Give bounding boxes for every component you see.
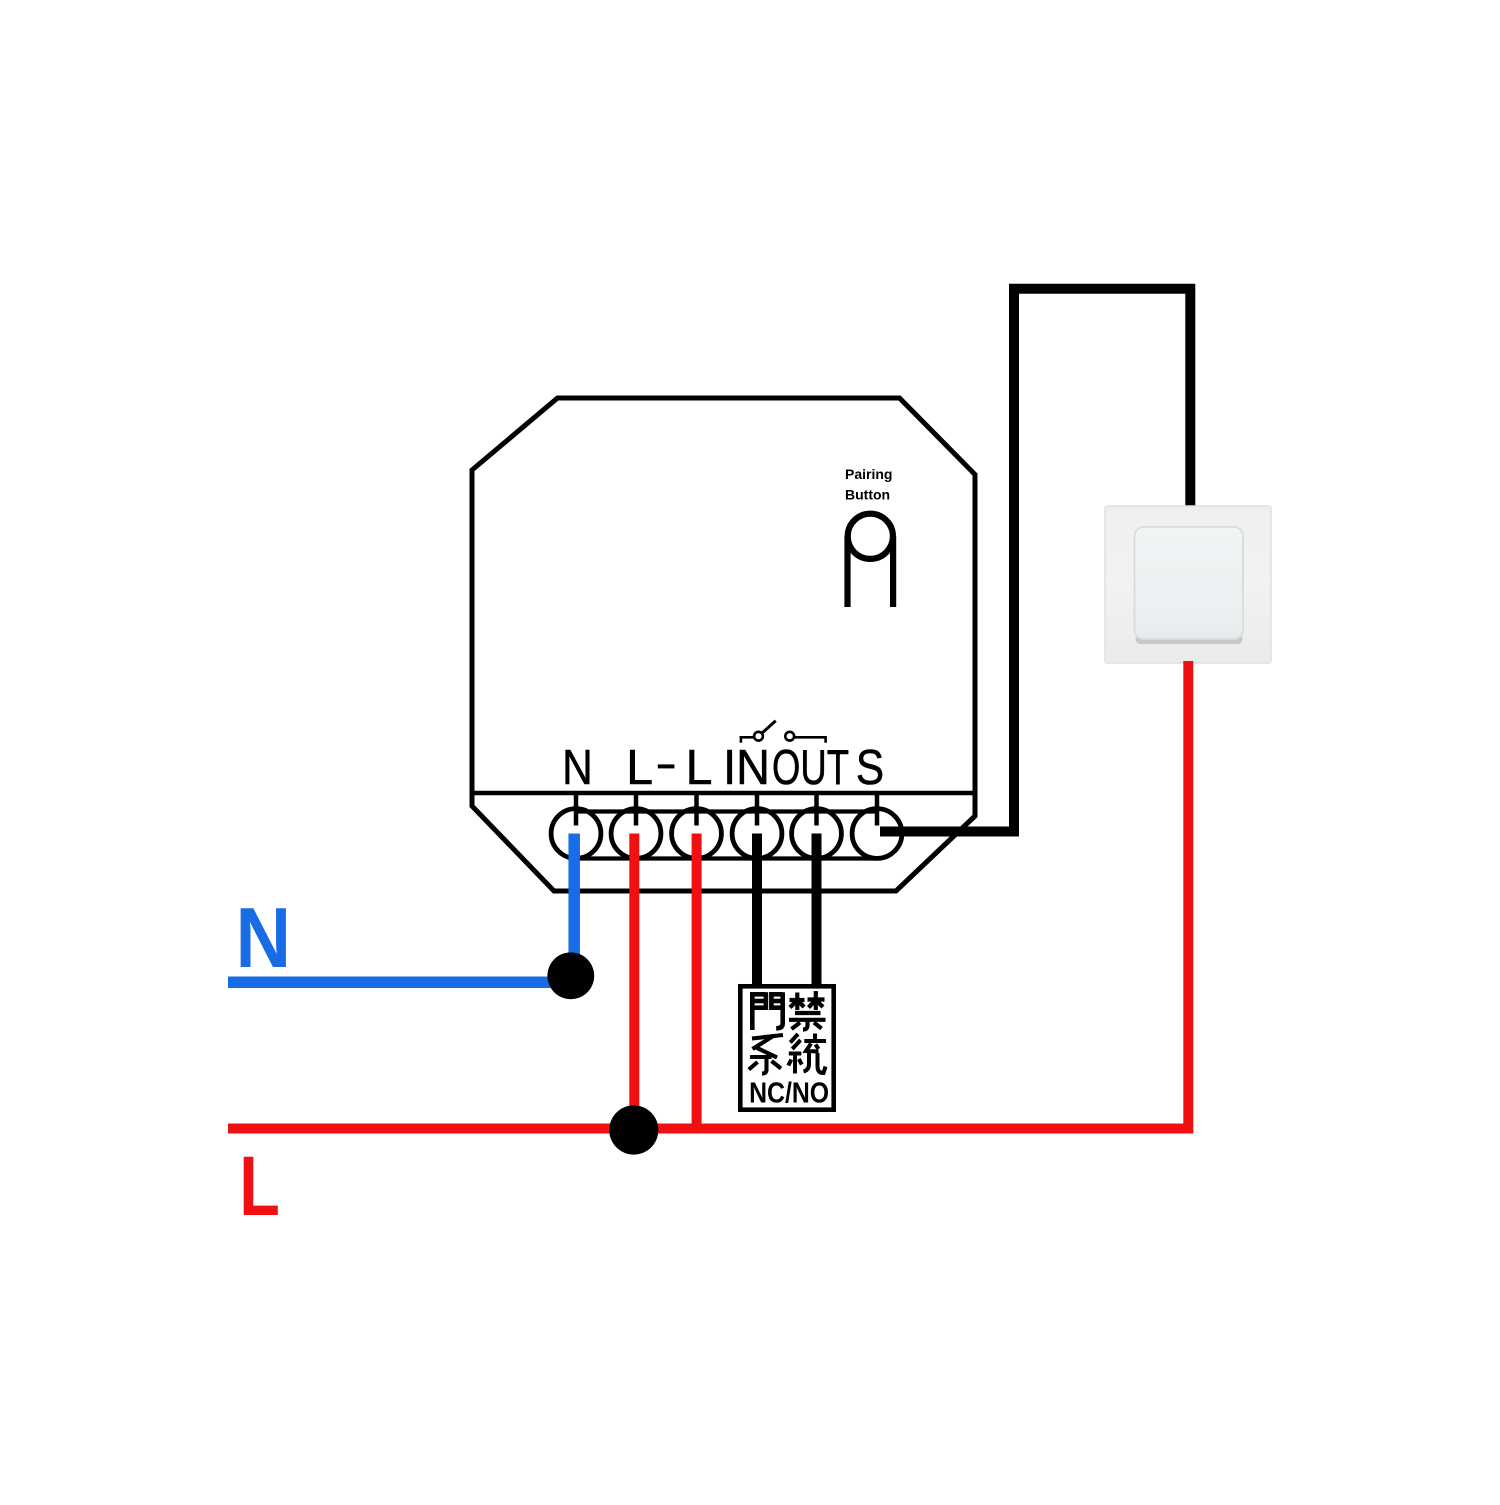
label dash between L terminals — [658, 764, 675, 768]
terminal L1 screw slot — [634, 793, 639, 826]
hand-drawn CJK glyph: 禁 (forbid) — [789, 991, 826, 1030]
terminal strip top rail — [576, 809, 877, 813]
terminal strip bottom rail — [576, 856, 877, 860]
hand-drawn CJK glyph: 系 (system/thread) — [749, 1035, 783, 1074]
wall switch rocker button — [1136, 634, 1243, 644]
terminal IN screw slot — [755, 793, 760, 826]
svg-text:Button: Button — [845, 486, 890, 502]
terminal N screw slot — [574, 793, 579, 826]
node: L junction dot — [609, 1105, 658, 1154]
terminal N (screw circle) — [551, 809, 601, 859]
wire S terminal to wall switch (black) — [880, 289, 1190, 832]
wire terminal IN to access-control box (black) — [752, 834, 762, 989]
wall switch SW1 (plate) — [1105, 506, 1271, 663]
terminal OUT screw slot — [814, 793, 819, 826]
terminal L2 screw slot — [694, 793, 699, 826]
relay module U1 body (octagon outline) — [472, 398, 975, 891]
svg-text:L: L — [686, 740, 713, 795]
relay contact symbol (normally-open switch) — [741, 721, 826, 743]
terminal S (screw circle) — [852, 809, 902, 859]
svg-text:NC/NO: NC/NO — [749, 1078, 829, 1110]
terminal OUT (screw circle) — [792, 809, 842, 859]
wire terminal OUT to access-control box (black) — [812, 834, 822, 989]
terminal S screw slot — [875, 793, 880, 826]
svg-text:N: N — [562, 740, 593, 795]
terminal L1 (screw circle) — [611, 809, 661, 859]
wire N to terminal N (blue vertical) — [568, 834, 580, 979]
svg-text:Pairing: Pairing — [845, 466, 892, 482]
access control box (door access system, NC/NO) — [740, 986, 833, 1109]
wire N horizontal (blue) — [228, 977, 585, 989]
svg-text:N: N — [236, 891, 292, 986]
wire terminal L2 down to L line (red vertical) — [692, 834, 702, 1134]
svg-text:L: L — [239, 1139, 280, 1233]
terminal IN (screw circle) — [732, 809, 782, 859]
pairing button icon — [848, 514, 894, 607]
wire L junction to terminal L1 (red vertical) — [629, 834, 639, 1131]
hand-drawn CJK glyph: 門 (gate) — [750, 992, 783, 1030]
node: N junction dot — [547, 952, 594, 999]
hand-drawn CJK glyph: 統 (unify) — [788, 1034, 826, 1074]
wire wall switch to L line (red) — [228, 661, 1188, 1129]
svg-text:S: S — [856, 740, 884, 795]
svg-text:OUT: OUT — [772, 740, 849, 795]
module terminal strip edge line — [472, 791, 975, 796]
svg-text:IN: IN — [723, 740, 770, 795]
svg-text:L: L — [626, 740, 653, 795]
terminal L2 (screw circle) — [672, 809, 722, 859]
